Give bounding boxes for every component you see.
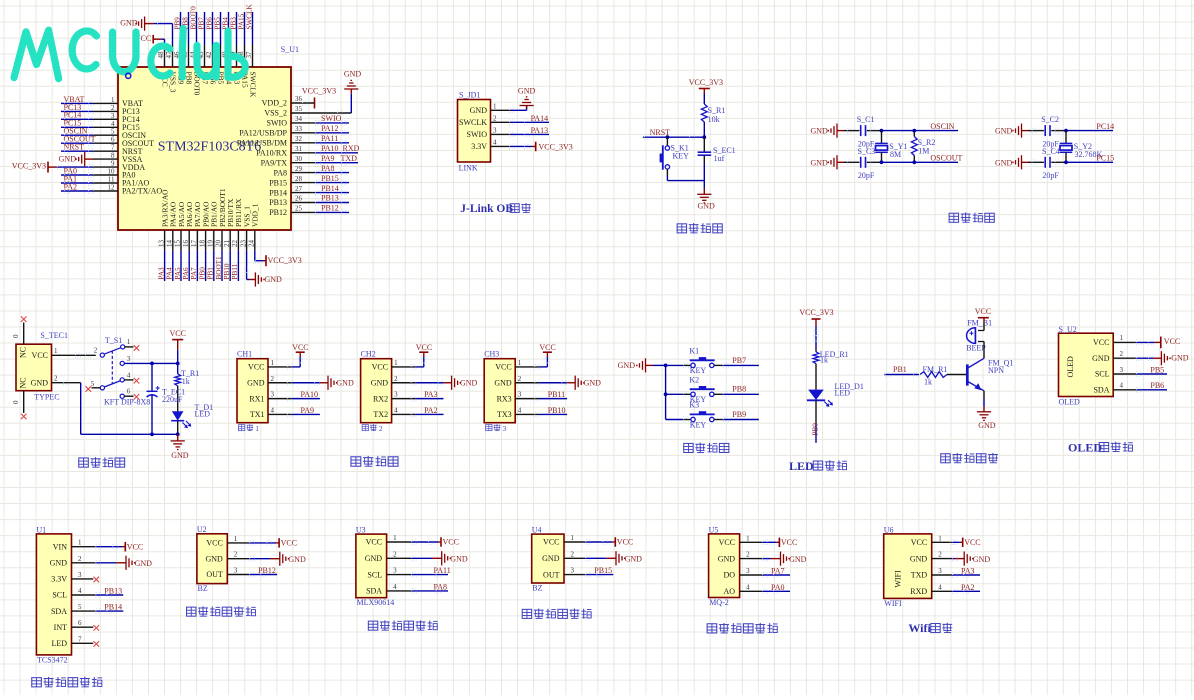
wire	[867, 128, 882, 133]
part comment TCS3472	[37, 655, 68, 664]
resistor FM_R1	[920, 365, 947, 387]
power VCC	[615, 537, 633, 547]
net label PB6	[1150, 381, 1164, 390]
svg-text:2: 2	[271, 375, 275, 383]
mcu pin 27 PB14 net label	[269, 184, 349, 198]
mcu pin 41 PB5 net label	[213, 12, 225, 85]
svg-text:GND: GND	[344, 69, 362, 78]
wire	[947, 374, 966, 376]
svg-text:30: 30	[295, 155, 303, 163]
designator CH1	[237, 349, 252, 358]
svg-text:5: 5	[91, 380, 95, 388]
no connect X	[86, 386, 92, 392]
svg-text:PA12: PA12	[321, 124, 339, 133]
mcu pin 43 PB7 net label	[197, 12, 209, 85]
svg-text:1uf: 1uf	[714, 154, 725, 163]
module U5 body	[709, 534, 740, 598]
net label PB8	[732, 385, 746, 394]
svg-text:PB11: PB11	[231, 263, 239, 279]
led T_D1	[171, 403, 213, 428]
jlink pin name SWIO	[467, 126, 497, 139]
ground	[444, 376, 478, 390]
U6 pin name VCC	[911, 534, 942, 547]
wire	[882, 130, 959, 132]
svg-text:2: 2	[493, 114, 497, 122]
ground crystal S_C1	[810, 124, 843, 138]
resistor S_R1	[701, 104, 725, 124]
mcu pin 12 PA2/TX/AO with net label PA2	[61, 182, 162, 195]
svg-text:PA15: PA15	[238, 13, 246, 29]
svg-text:GND: GND	[995, 159, 1013, 168]
svg-text:BZ: BZ	[198, 584, 208, 593]
svg-text:6: 6	[127, 388, 131, 396]
part comment MQ-2	[709, 598, 729, 607]
U1 pin 2 wire	[72, 560, 127, 565]
U4 pin 1 wire	[564, 540, 615, 545]
CH3 pin name VCC	[495, 359, 521, 372]
svg-text:OUT: OUT	[206, 570, 223, 579]
svg-text:GND: GND	[265, 275, 283, 284]
wire	[177, 350, 179, 374]
wire	[1028, 128, 1044, 133]
U1 pin name SDA	[51, 603, 82, 616]
mcu pin 11 PA1/AO with net label PA1	[61, 174, 149, 187]
svg-text:PA9/TX: PA9/TX	[261, 158, 288, 167]
svg-text:PB15: PB15	[594, 566, 612, 575]
power VCC	[416, 343, 432, 357]
svg-text:VCC: VCC	[1093, 338, 1109, 347]
wire	[1028, 160, 1044, 165]
U6 pin 1 wire	[932, 540, 963, 545]
mcu pin 42 PB6 net label	[205, 12, 217, 85]
mcu pin 1 VBAT with net label VBAT	[61, 95, 143, 108]
svg-text:NPN: NPN	[988, 366, 1004, 375]
connector CH3 body	[484, 359, 515, 423]
svg-text:2: 2	[393, 550, 397, 558]
U3 pin name GND	[365, 550, 397, 563]
svg-text:GND: GND	[1171, 353, 1189, 362]
mcu pin 36 VDD_2 power VCC_3V3	[262, 86, 336, 108]
mcu pin 3 PC14 with net label PC14	[61, 111, 140, 124]
net label PA11	[434, 566, 451, 575]
svg-text:PA2: PA2	[961, 583, 975, 592]
oled pin 1 wire	[1113, 340, 1161, 345]
svg-text:SWCLK: SWCLK	[459, 118, 487, 127]
svg-text:1: 1	[746, 534, 750, 542]
svg-text:5: 5	[78, 603, 82, 611]
no connect X	[94, 625, 100, 631]
svg-text:PA3: PA3	[961, 567, 975, 576]
svg-text:LINK: LINK	[459, 164, 478, 173]
svg-text:2: 2	[394, 375, 398, 383]
svg-text:25: 25	[295, 205, 303, 213]
svg-text:7: 7	[78, 635, 82, 643]
CH1 pin name RX1	[249, 391, 274, 404]
svg-text:1: 1	[78, 539, 82, 547]
svg-text:PA2/TX/AO: PA2/TX/AO	[122, 187, 162, 196]
wire	[177, 386, 179, 412]
designator CH3	[484, 349, 499, 358]
svg-text:PB15: PB15	[321, 174, 339, 183]
svg-text:GND: GND	[518, 87, 536, 96]
net label PA3	[961, 567, 975, 576]
junction	[1064, 129, 1068, 133]
power VCC	[279, 538, 297, 548]
svg-text:MLX90614: MLX90614	[357, 598, 395, 607]
svg-text:36: 36	[295, 95, 303, 103]
svg-text:PB10: PB10	[548, 406, 566, 415]
wire	[844, 128, 860, 133]
U1 pin 1 wire	[72, 544, 126, 549]
svg-text:BOOT1: BOOT1	[215, 256, 223, 280]
svg-text:PA10: PA10	[301, 390, 319, 399]
mcu pin 40 PB4 net label	[221, 12, 233, 85]
CH1 pin 1 wire	[268, 357, 303, 369]
resistor T_R1	[175, 369, 199, 386]
svg-text:3: 3	[111, 112, 115, 120]
title smoke detect module	[707, 623, 777, 633]
svg-text:GND: GND	[470, 106, 488, 115]
mcu pin 46 PB9 net label	[173, 12, 185, 85]
svg-text:S_U1: S_U1	[281, 45, 299, 54]
svg-text:3.3V: 3.3V	[51, 575, 67, 584]
ground buzzer	[977, 407, 996, 430]
svg-text:1: 1	[394, 359, 398, 367]
wire	[666, 419, 691, 421]
svg-text:3: 3	[493, 126, 497, 134]
net label PA10	[301, 390, 319, 399]
wire	[983, 399, 985, 407]
svg-text:0: 0	[12, 400, 20, 404]
power VCC	[539, 343, 555, 357]
svg-text:NC: NC	[19, 377, 28, 388]
buzzer FM_B1	[966, 318, 992, 352]
svg-text:SCL: SCL	[1095, 370, 1110, 379]
svg-text:31: 31	[295, 145, 303, 153]
svg-text:VCC: VCC	[248, 363, 264, 372]
mcu pin 28 PB15 net label	[269, 174, 349, 188]
svg-text:1: 1	[54, 347, 58, 355]
svg-text:2: 2	[746, 551, 750, 559]
wire	[177, 421, 179, 435]
U3 pin 1 wire	[387, 540, 441, 545]
svg-text:WIFI: WIFI	[894, 570, 903, 588]
svg-text:3: 3	[234, 567, 238, 575]
mcu pin 32 PA11/USB/DM net label	[237, 134, 349, 148]
junction	[702, 135, 706, 139]
svg-text:RX1: RX1	[249, 394, 264, 403]
svg-text:PA4: PA4	[166, 267, 174, 280]
svg-text:OUT: OUT	[543, 570, 560, 579]
wire	[666, 364, 691, 366]
svg-text:PB12: PB12	[321, 204, 339, 213]
ground buttons	[618, 358, 653, 372]
svg-text:S_R1: S_R1	[708, 106, 726, 115]
designator CH2	[361, 349, 376, 358]
net label PA2	[424, 406, 438, 415]
CH3 pin 1 wire	[515, 357, 550, 369]
U2 pin 1 wire	[227, 541, 279, 546]
svg-text:20pF: 20pF	[1042, 171, 1059, 180]
mcu pin 17 PA7/AO net label PA7	[190, 201, 202, 281]
jlink pin name GND	[470, 102, 497, 115]
svg-text:PC14: PC14	[1096, 122, 1114, 131]
svg-text:PB6: PB6	[206, 17, 214, 30]
connector S_JD1 body	[458, 100, 491, 163]
svg-text:PB0: PB0	[198, 267, 206, 280]
svg-text:WIFI: WIFI	[884, 599, 902, 608]
CH2 pin name RX2	[373, 391, 398, 404]
wire	[815, 400, 817, 443]
svg-text:VCC: VCC	[617, 538, 633, 547]
U5 pin 2 wire	[740, 556, 781, 561]
U3 pin 2 wire	[387, 556, 442, 561]
U6 pin name RXD	[910, 583, 942, 596]
wire	[703, 181, 705, 189]
title J-Link OB interface	[460, 203, 531, 215]
svg-text:2: 2	[379, 424, 383, 433]
connector S_TEC1 body	[16, 344, 52, 391]
module U3 body	[356, 534, 387, 598]
mcu pin 15 PA5/AO net label PA5	[174, 201, 186, 281]
svg-text:VCC: VCC	[366, 538, 382, 547]
svg-text:PB1: PB1	[207, 267, 215, 280]
svg-text:1: 1	[234, 535, 238, 543]
svg-text:TYPEC: TYPEC	[34, 392, 59, 401]
designator S_U1	[281, 45, 299, 54]
tec1 pin name VCC	[32, 351, 48, 360]
CH2 pin 2 wire	[392, 380, 444, 385]
svg-text:VCC: VCC	[372, 363, 388, 372]
tec1 pin 2 wire	[52, 375, 81, 386]
svg-text:PA13: PA13	[531, 126, 549, 135]
ground	[781, 552, 807, 566]
part comment WIFI	[884, 599, 902, 608]
mcu pin 35 VSS_2 ground	[264, 69, 361, 117]
CH1 pin name VCC	[248, 359, 274, 372]
svg-text:LED: LED	[51, 639, 67, 648]
power VCC	[779, 538, 797, 548]
U5 pin name VCC	[719, 534, 750, 547]
part comment BZ	[532, 583, 542, 592]
svg-text:VCC: VCC	[443, 538, 459, 547]
wire bottom rail	[81, 433, 178, 435]
svg-text:PB14: PB14	[269, 188, 287, 197]
capacitor S_C3	[858, 147, 876, 180]
wire	[666, 393, 691, 395]
U4 pin name VCC	[543, 534, 574, 547]
CH3 pin name TX3	[497, 406, 522, 419]
svg-text:27: 27	[295, 185, 303, 193]
U3 pin name SDA	[366, 583, 397, 596]
mcu pin 18 PB0/AO net label PB0	[198, 201, 210, 281]
svg-text:34: 34	[295, 115, 303, 123]
net label NRST wire	[643, 128, 705, 140]
svg-text:VCC: VCC	[127, 542, 143, 551]
wire	[684, 363, 759, 368]
svg-text:GND: GND	[995, 127, 1013, 136]
U5 pin name GND	[718, 551, 750, 564]
svg-text:OLED: OLED	[1066, 356, 1075, 378]
CH3 pin 4 wire	[515, 412, 567, 417]
svg-text:PB14: PB14	[321, 184, 339, 193]
title crystal circuit	[949, 212, 994, 222]
key K1	[689, 347, 714, 376]
junction	[664, 364, 668, 368]
resistor S_R2	[911, 131, 935, 163]
ground	[616, 551, 642, 565]
svg-text:KEY: KEY	[690, 366, 707, 375]
svg-text:1: 1	[255, 424, 259, 433]
designator U4	[532, 526, 542, 535]
svg-text:T_S1: T_S1	[105, 336, 122, 345]
ground power circuit	[171, 434, 189, 460]
net label PA8	[434, 583, 448, 592]
svg-text:4: 4	[938, 583, 942, 591]
svg-text:3: 3	[394, 391, 398, 399]
svg-text:GND: GND	[135, 559, 153, 568]
svg-text:1: 1	[518, 359, 522, 367]
svg-text:PA5: PA5	[174, 267, 182, 280]
svg-text:PB13: PB13	[269, 198, 287, 207]
svg-text:PB7: PB7	[198, 17, 206, 30]
svg-text:SWIO: SWIO	[267, 119, 288, 128]
svg-text:PA8: PA8	[321, 164, 335, 173]
svg-text:GND: GND	[718, 554, 736, 563]
U1 pin name GND	[50, 555, 82, 568]
svg-text:GND: GND	[336, 379, 354, 388]
svg-text:3: 3	[271, 391, 275, 399]
wire	[983, 350, 985, 358]
svg-text:TX2: TX2	[373, 410, 388, 419]
power VCC	[963, 538, 981, 548]
svg-text:2: 2	[94, 347, 98, 355]
power VCC buzzer	[975, 307, 991, 322]
U1 pin name 3.3V	[51, 571, 82, 584]
CH1 pin 3 wire	[268, 396, 320, 401]
svg-text:OLED: OLED	[1068, 440, 1102, 454]
subtitle serial 3	[486, 424, 507, 433]
svg-text:33: 33	[295, 125, 303, 133]
mcu part name STM32F103C8T6	[158, 139, 261, 154]
wire	[983, 342, 985, 351]
svg-text:11: 11	[108, 176, 115, 184]
svg-text:BOOT0: BOOT0	[190, 6, 198, 30]
wire	[666, 137, 668, 146]
svg-text:PB12: PB12	[258, 566, 276, 575]
designator S_TEC1	[40, 331, 68, 340]
ground reset	[697, 189, 715, 211]
svg-text:1M: 1M	[918, 146, 929, 155]
mcu pin 26 PB13 net label	[269, 194, 349, 208]
net label PA13	[531, 126, 549, 135]
CH1 pin name GND	[247, 375, 274, 388]
svg-text:GND: GND	[584, 379, 602, 388]
mcu pin 38 PA15 net label	[237, 12, 249, 88]
svg-text:VCC: VCC	[281, 539, 297, 548]
mcu pin 45 PB8 net label	[181, 12, 193, 85]
svg-text:DO: DO	[724, 571, 736, 580]
ground	[567, 376, 601, 390]
U1 pin name LED	[51, 635, 82, 648]
net label PC15	[1096, 154, 1114, 163]
title color detect module	[32, 677, 102, 687]
switch pin1 wire	[125, 346, 134, 348]
logo MCUclub	[14, 29, 245, 79]
svg-text:GND: GND	[789, 555, 807, 564]
svg-text:1: 1	[393, 534, 397, 542]
svg-text:VCC_3V3: VCC_3V3	[12, 162, 46, 171]
junction	[664, 392, 668, 396]
part comment LINK	[459, 164, 478, 173]
wire	[1066, 161, 1113, 163]
svg-text:VCC_3V3: VCC_3V3	[689, 78, 723, 87]
svg-text:3: 3	[571, 567, 575, 575]
wire	[703, 122, 705, 137]
svg-text:3: 3	[746, 567, 750, 575]
title power circuit	[79, 457, 125, 467]
junction	[1064, 160, 1068, 164]
svg-text:GND: GND	[910, 554, 928, 563]
led LED_D1	[807, 382, 864, 407]
tec1 pin name GND	[31, 378, 49, 387]
jlink pin 4 wire	[491, 144, 536, 149]
svg-text:K1: K1	[689, 347, 699, 356]
wire	[666, 169, 668, 181]
svg-text:GND: GND	[50, 559, 68, 568]
junction	[912, 160, 916, 164]
svg-text:GND: GND	[978, 421, 996, 430]
svg-text:VSS_2: VSS_2	[264, 109, 287, 118]
svg-text:2: 2	[111, 104, 115, 112]
svg-text:GND: GND	[973, 555, 991, 564]
mcu pin 25 PB12 net label	[269, 204, 349, 218]
svg-text:1k: 1k	[182, 377, 190, 386]
power VCC_3V3 reset	[689, 78, 723, 94]
designator U5	[709, 525, 719, 534]
part comment MLX90614	[357, 598, 395, 607]
svg-text:BEEP: BEEP	[966, 343, 986, 352]
svg-text:PB8: PB8	[732, 385, 746, 394]
U3 pin 4 wire	[387, 589, 448, 594]
net label PB5	[1150, 365, 1164, 374]
connector CH2 body	[361, 359, 392, 423]
svg-text:U2: U2	[197, 525, 207, 534]
wire	[1051, 128, 1066, 133]
svg-text:SWIO: SWIO	[467, 130, 488, 139]
jlink pin 3 wire	[491, 132, 550, 137]
svg-text:NC: NC	[19, 347, 28, 358]
part comment TYPEC	[34, 392, 59, 401]
svg-text:PB0: PB0	[811, 423, 819, 436]
U5 pin name DO	[724, 567, 751, 580]
subtitle serial 1	[238, 424, 259, 433]
svg-text:U5: U5	[709, 525, 719, 534]
svg-text:7: 7	[111, 144, 115, 152]
mcu pin 8 VSSA ground	[59, 152, 143, 167]
svg-text:PA2: PA2	[64, 182, 78, 191]
wire	[983, 391, 985, 399]
CH2 pin 1 wire	[392, 357, 427, 369]
title serial circuit	[351, 456, 398, 466]
U5 pin 1 wire	[740, 540, 780, 545]
svg-text:FM_R1: FM_R1	[923, 365, 948, 374]
svg-text:K2: K2	[689, 375, 699, 384]
mcu pin 39 PB3 net label	[229, 12, 241, 85]
svg-text:GND: GND	[810, 127, 828, 136]
CH3 pin name RX3	[497, 391, 522, 404]
designator U1	[36, 525, 46, 534]
